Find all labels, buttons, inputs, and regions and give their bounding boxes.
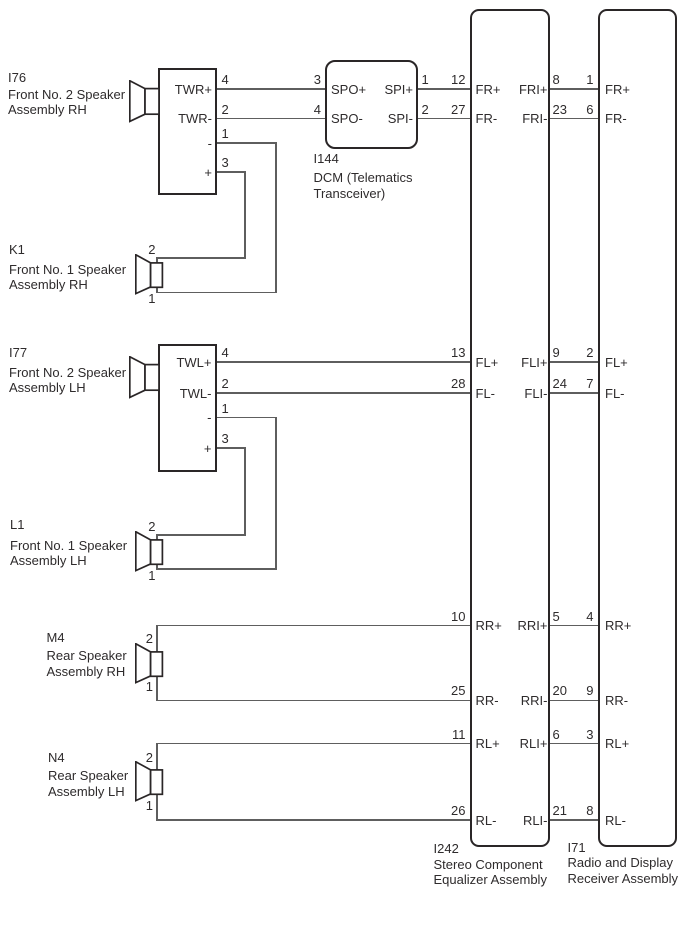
wire FRI+ pin8 equalizer to pin1 FR+ radio bbox=[550, 88, 598, 90]
wire I77 pin3 plus horizontal bbox=[217, 447, 246, 449]
label I144 DCM name label bbox=[314, 170, 413, 201]
wire M4 pin2 stub bbox=[156, 625, 158, 653]
wire FRI- pin23 equalizer to pin6 FR- radio bbox=[550, 118, 598, 120]
wire RLI+ pin6 equalizer to pin3 RL+ radio bbox=[550, 743, 598, 745]
wire I76 pin1 minus horizontal bbox=[217, 142, 277, 144]
pin 6 radio bbox=[586, 103, 593, 116]
wire L1 pin1 stub to speaker bbox=[156, 563, 158, 569]
pin 1 radio bbox=[586, 73, 593, 86]
net label FLI- equalizer right bbox=[524, 387, 547, 401]
pin 2 N4 bbox=[146, 751, 153, 764]
wire I76 pin3 to K1 pin2 vertical bbox=[244, 171, 246, 259]
net label TWL- bbox=[180, 387, 212, 401]
label I76 id label bbox=[8, 71, 26, 84]
connector box I76 (Front No. 2 Speaker RH tweeter) bbox=[158, 68, 217, 196]
Stereo Component Equalizer Assembly I242 bbox=[470, 9, 550, 847]
pin 2 radio bbox=[586, 346, 593, 359]
net label RR- equalizer left bbox=[476, 694, 499, 708]
wire RRI+ pin5 equalizer to pin4 RR+ radio bbox=[550, 625, 598, 627]
net label SPO+ bbox=[331, 83, 366, 97]
net label FL- radio bbox=[605, 387, 625, 401]
wire N4 pin1 to pin26 RL- equalizer bbox=[156, 819, 470, 821]
wire I77 pin3 to L1 pin2 vertical bbox=[244, 447, 246, 536]
net label FRI- equalizer right bbox=[522, 112, 547, 126]
pin 7 radio bbox=[586, 377, 593, 390]
wire RRI- pin20 equalizer to pin9 RR- radio bbox=[550, 700, 598, 702]
net label minus I76 bbox=[208, 137, 212, 151]
pin 11 equalizer left bbox=[452, 728, 466, 741]
pin 3 I77 bbox=[222, 432, 229, 445]
pin 1 N4 bbox=[146, 799, 153, 812]
net label FL+ equalizer left bbox=[476, 356, 499, 370]
label I71 radio id label bbox=[568, 841, 586, 854]
pin 6 equalizer right bbox=[553, 728, 560, 741]
label I77 name label bbox=[9, 365, 126, 396]
net label RR+ equalizer left bbox=[476, 619, 502, 633]
net label plus I77 bbox=[204, 442, 212, 456]
wire K1 pin1 horizontal bbox=[156, 292, 276, 294]
pin 1 DCM bbox=[422, 73, 429, 86]
net label SPI+ bbox=[384, 83, 413, 97]
label M4 name label bbox=[47, 648, 127, 679]
net label TWR- bbox=[178, 112, 212, 126]
pin 4 I77 bbox=[222, 346, 229, 359]
label L1 name label bbox=[10, 538, 127, 569]
connector box I77 (Front No. 2 Speaker LH tweeter) bbox=[158, 344, 217, 472]
label M4 id label bbox=[47, 631, 65, 644]
pin 2 I77 bbox=[222, 377, 229, 390]
speaker icon L1 bbox=[135, 531, 164, 572]
pin 2 DCM bbox=[422, 103, 429, 116]
label N4 id label bbox=[48, 751, 65, 764]
wire I76 pin3 plus horizontal bbox=[217, 171, 246, 173]
label K1 name label bbox=[9, 262, 126, 293]
wire M4 pin1 stub bbox=[156, 675, 158, 701]
net label SPO- bbox=[331, 112, 363, 126]
pin 12 equalizer left bbox=[451, 73, 465, 86]
net label RRI+ equalizer right bbox=[518, 619, 548, 633]
net label TWL+ bbox=[176, 356, 211, 370]
pin 3 DCM bbox=[314, 73, 321, 86]
pin 2 L1 bbox=[148, 520, 155, 533]
pin 8 radio bbox=[586, 804, 593, 817]
speaker icon N4 bbox=[135, 761, 164, 802]
label I242 equalizer name label bbox=[434, 857, 547, 888]
pin 23 equalizer right bbox=[553, 103, 567, 116]
net label RR+ radio bbox=[605, 619, 631, 633]
label I242 equalizer id label bbox=[434, 842, 459, 855]
pin 9 radio bbox=[586, 684, 593, 697]
pin 9 equalizer right bbox=[553, 346, 560, 359]
net label FR+ equalizer left bbox=[476, 83, 501, 97]
label K1 id label bbox=[9, 243, 25, 256]
net label TWR+ bbox=[175, 83, 212, 97]
speaker icon I76 tweeter bbox=[129, 80, 160, 123]
net label RLI- equalizer right bbox=[523, 814, 548, 828]
pin 20 equalizer right bbox=[553, 684, 567, 697]
pin 5 equalizer right bbox=[553, 610, 560, 623]
pin 25 equalizer left bbox=[451, 684, 465, 697]
net label minus I77 bbox=[207, 411, 211, 425]
pin 27 equalizer left bbox=[451, 103, 465, 116]
net label RL+ radio bbox=[605, 737, 629, 751]
label I71 radio name label bbox=[568, 855, 679, 886]
wire L1 pin1 horizontal bbox=[156, 568, 276, 570]
net label FL+ radio bbox=[605, 356, 628, 370]
wire I77 pin1 to L1 pin1 vertical bbox=[275, 417, 277, 570]
DCM U-I144 (Telematics Transceiver) bbox=[325, 60, 418, 150]
pin 3 radio bbox=[586, 728, 593, 741]
pin 13 equalizer left bbox=[451, 346, 465, 359]
pin 4 I76 bbox=[222, 73, 229, 86]
pin 2 M4 bbox=[146, 632, 153, 645]
wire TWR- pin2 I76 to pin4 DCM (FR- net) bbox=[217, 118, 325, 120]
label I76 name label bbox=[8, 87, 125, 118]
wire N4 pin2 to pin11 RL+ equalizer bbox=[156, 743, 470, 745]
wire SPI+ pin1 DCM to pin12 FR+ equalizer bbox=[418, 88, 471, 90]
pin 1 I76 bbox=[222, 127, 229, 140]
net label FRI+ equalizer right bbox=[519, 83, 548, 97]
pin 1 L1 bbox=[148, 569, 155, 582]
pin 1 K1 bbox=[148, 292, 155, 305]
net label RR- radio bbox=[605, 694, 628, 708]
net label RL+ equalizer left bbox=[476, 737, 500, 751]
pin 10 equalizer left bbox=[451, 610, 465, 623]
wire I77 pin1 minus horizontal bbox=[217, 417, 277, 419]
wire K1 pin1 stub to speaker bbox=[156, 286, 158, 294]
wire RLI- pin21 equalizer to pin8 RL- radio bbox=[550, 819, 598, 821]
wire TWL+ pin4 I77 to pin13 FL+ equalizer bbox=[217, 361, 471, 363]
net label FR+ radio bbox=[605, 83, 630, 97]
wire TWR+ pin4 I76 to pin3 DCM (FR+ net) bbox=[217, 88, 325, 90]
wire TWL- pin2 I77 to pin28 FL- equalizer bbox=[217, 392, 471, 394]
wire N4 pin1 stub bbox=[156, 794, 158, 821]
wire M4 pin2 to pin10 RR+ equalizer bbox=[156, 625, 470, 627]
net label FLI+ equalizer right bbox=[521, 356, 547, 370]
pin 1 I77 bbox=[222, 402, 229, 415]
speaker icon M4 bbox=[135, 643, 164, 684]
label L1 id label bbox=[10, 518, 24, 531]
wire L1 pin2 stub to speaker bbox=[156, 534, 158, 540]
pin 2 I76 bbox=[222, 103, 229, 116]
pin 1 M4 bbox=[146, 680, 153, 693]
net label plus I76 bbox=[204, 166, 212, 180]
speaker icon K1 bbox=[135, 254, 164, 295]
pin 28 equalizer left bbox=[451, 377, 465, 390]
wire FLI+ pin9 equalizer to pin2 FL+ radio bbox=[550, 361, 598, 363]
wire M4 pin1 to pin25 RR- equalizer bbox=[156, 700, 470, 702]
pin 2 K1 bbox=[148, 243, 155, 256]
pin 8 equalizer right bbox=[553, 73, 560, 86]
pin 4 radio bbox=[586, 610, 593, 623]
wire FLI- pin24 equalizer to pin7 FL- radio bbox=[550, 392, 598, 394]
pin 4 DCM bbox=[314, 103, 321, 116]
net label RRI- equalizer right bbox=[521, 694, 548, 708]
label I144 DCM id label bbox=[314, 152, 339, 165]
label N4 name label bbox=[48, 768, 128, 799]
pin 21 equalizer right bbox=[553, 804, 567, 817]
net label FR- equalizer left bbox=[476, 112, 498, 126]
Radio and Display Receiver Assembly I71 bbox=[598, 9, 677, 847]
pin 26 equalizer left bbox=[451, 804, 465, 817]
speaker icon I77 tweeter bbox=[129, 356, 160, 399]
wire K1 pin2 horizontal bbox=[156, 257, 246, 259]
wire L1 pin2 horizontal bbox=[156, 534, 246, 536]
net label FL- equalizer left bbox=[476, 387, 496, 401]
net label RL- radio bbox=[605, 814, 626, 828]
wire N4 pin2 stub bbox=[156, 743, 158, 771]
label I77 id label bbox=[9, 346, 27, 359]
net label RLI+ equalizer right bbox=[520, 737, 548, 751]
net label FR- radio bbox=[605, 112, 627, 126]
net label RL- equalizer left bbox=[476, 814, 497, 828]
wire I76 pin1 to K1 pin1 vertical bbox=[275, 142, 277, 293]
pin 3 I76 bbox=[222, 156, 229, 169]
pin 24 equalizer right bbox=[553, 377, 567, 390]
net label SPI- bbox=[388, 112, 413, 126]
wire K1 pin2 stub to speaker bbox=[156, 257, 158, 263]
wire SPI- pin2 DCM to pin27 FR- equalizer bbox=[418, 118, 471, 120]
